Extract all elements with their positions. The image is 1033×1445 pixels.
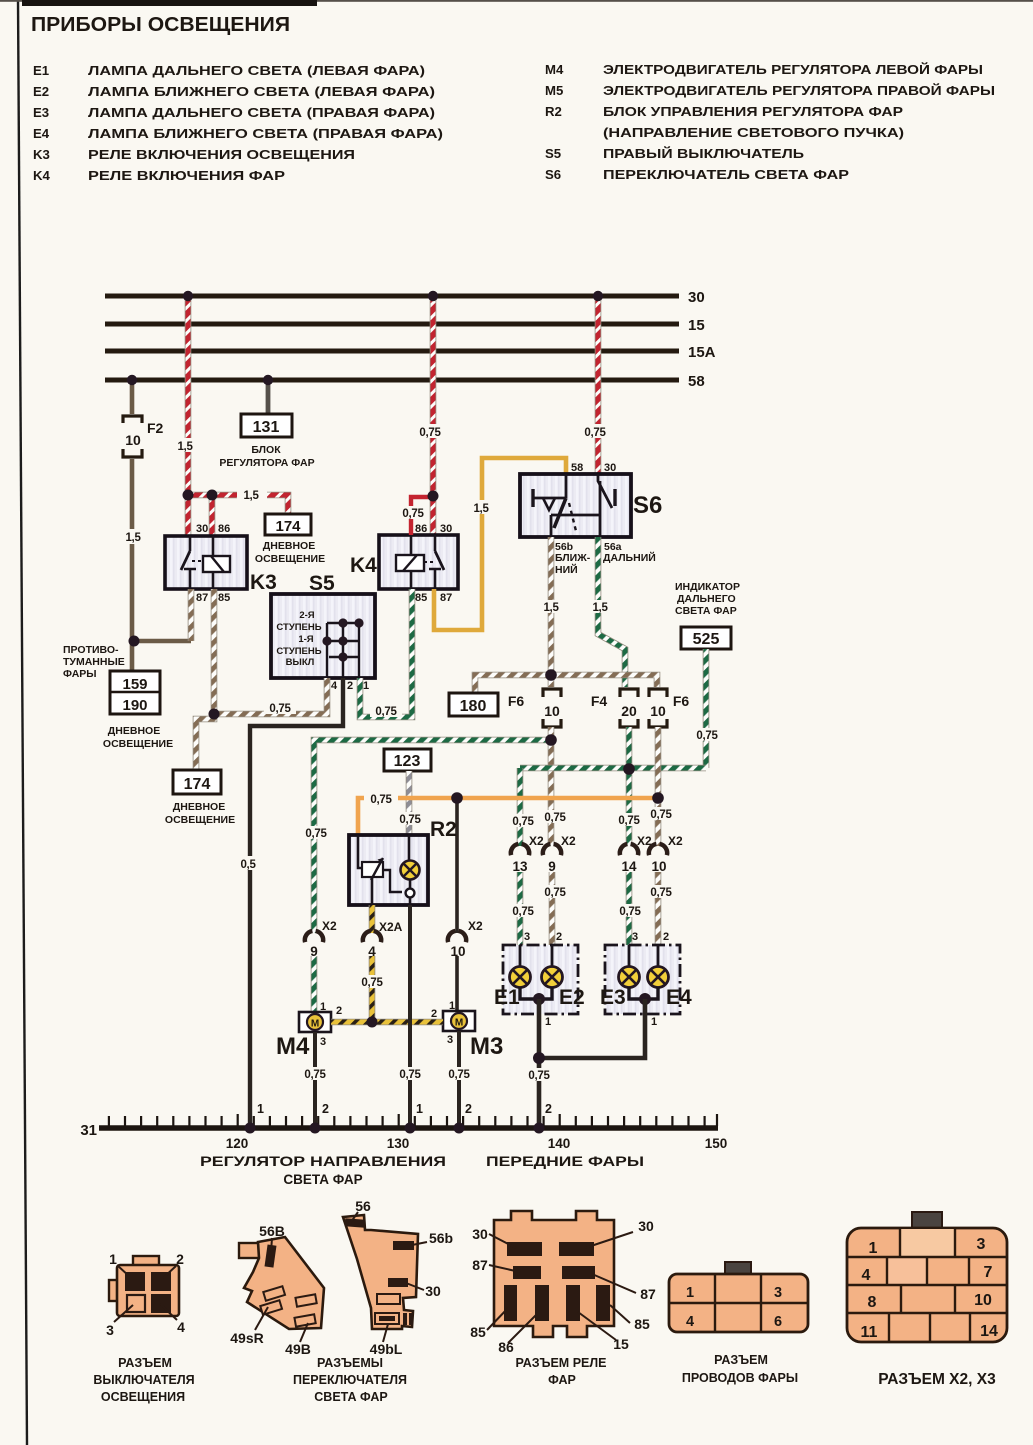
ground bus 31 (80, 1122, 718, 1139)
svg-text:РЕГУЛЯТОРА ФАР: РЕГУЛЯТОРА ФАР (219, 457, 314, 469)
wire gray bus58 to box 131 (266, 380, 271, 414)
svg-text:ТУМАННЫЕ: ТУМАННЫЕ (63, 656, 125, 668)
svg-text:0,75: 0,75 (618, 815, 640, 827)
svg-text:0,75: 0,75 (370, 794, 392, 806)
svg-text:1: 1 (109, 1251, 117, 1267)
svg-text:0,75: 0,75 (375, 706, 397, 718)
wire gray/white node to lamp connector 9 (539, 740, 571, 846)
light switch connector figure (93, 1251, 194, 1404)
wire black M3 pin3 to ground bus (443, 1031, 475, 1128)
wire gray/white orange node to lamp connector 10 (645, 798, 677, 846)
wire black headlamp ground link (523, 999, 645, 1128)
svg-text:3: 3 (320, 1036, 326, 1048)
box 525 high-beam indicator (681, 627, 731, 649)
wire yellow/black link M4 pin2 to M3 pin2 (331, 1019, 443, 1026)
svg-text:87: 87 (640, 1286, 656, 1302)
wire yellow/black connector 4 to motor link (356, 956, 388, 1022)
svg-text:1: 1 (416, 1102, 423, 1116)
bus 15A (105, 344, 716, 361)
box 180 (449, 693, 498, 716)
fuse F6 right 10A (649, 689, 689, 727)
top black header bar (0, 0, 1033, 2)
svg-text:0,75: 0,75 (512, 906, 534, 918)
svg-text:X2: X2 (529, 834, 544, 848)
connector X2 pin9 low beam left (543, 834, 576, 874)
svg-text:58: 58 (571, 462, 583, 474)
junction X2A link (367, 1017, 378, 1028)
switch S5 two-stage (271, 572, 375, 692)
svg-text:0,75: 0,75 (304, 1069, 326, 1081)
right headlamp housing box (605, 945, 680, 1014)
junction bus30/S6 (593, 291, 603, 301)
svg-text:0,75: 0,75 (696, 730, 718, 742)
junction E3/E4 common (639, 993, 651, 1005)
wire brown bus58 to fuse F2 (130, 380, 135, 414)
svg-text:РЕЛЕ ВКЛЮЧЕНИЯ ОСВЕЩЕНИЯ: РЕЛЕ ВКЛЮЧЕНИЯ ОСВЕЩЕНИЯ (88, 147, 355, 162)
svg-text:180: 180 (460, 698, 487, 715)
svg-text:E4: E4 (33, 126, 50, 141)
svg-text:E1: E1 (494, 986, 520, 1009)
wire black lamp commons E3 E4 (629, 987, 658, 999)
svg-text:0,75: 0,75 (650, 887, 672, 899)
svg-text:0,75: 0,75 (402, 508, 424, 520)
svg-text:ДНЕВНОЕ: ДНЕВНОЕ (108, 725, 160, 737)
junction bus58/131 (263, 375, 273, 385)
svg-text:30: 30 (440, 523, 452, 535)
svg-text:E3: E3 (600, 986, 626, 1009)
svg-text:1: 1 (257, 1102, 264, 1116)
wire black orange node to M3 pin1 (455, 798, 459, 933)
svg-text:E3: E3 (33, 105, 49, 120)
wire orange supply rail F6right to R2 (358, 791, 658, 835)
wire green/white connector 9 to M4 pin1 (311, 956, 318, 1012)
wire green/white connector 13 to lamp E1 (507, 872, 539, 967)
switch S6 dimmer (520, 462, 662, 537)
svg-text:85: 85 (470, 1324, 486, 1340)
junction bus30/K3 (183, 291, 193, 301)
svg-text:M: M (455, 1018, 463, 1029)
wire red/white bus30 to K3 node (185, 296, 192, 495)
svg-text:1: 1 (651, 1016, 657, 1028)
lamp E3 high beam right (600, 945, 640, 1009)
svg-text:0,75: 0,75 (650, 809, 672, 821)
svg-text:ПРАВЫЙ ВЫКЛЮЧАТЕЛЬ: ПРАВЫЙ ВЫКЛЮЧАТЕЛЬ (603, 146, 805, 161)
relay K4 (350, 523, 458, 604)
connector X2A pin4 (363, 920, 403, 959)
svg-text:10: 10 (125, 432, 141, 448)
svg-text:ЛАМПА БЛИЖНЕГО СВЕТА (ПРАВАЯ Ф: ЛАМПА БЛИЖНЕГО СВЕТА (ПРАВАЯ ФАРА) (88, 126, 443, 141)
svg-text:ИНДИКАТОР: ИНДИКАТОР (675, 581, 740, 593)
svg-text:F6: F6 (508, 693, 525, 709)
svg-text:РЕЛЕ ВКЛЮЧЕНИЯ ФАР: РЕЛЕ ВКЛЮЧЕНИЯ ФАР (88, 168, 285, 183)
svg-text:РЕГУЛЯТОР НАПРАВЛЕНИЯ: РЕГУЛЯТОР НАПРАВЛЕНИЯ (200, 1154, 446, 1169)
ground bus junctions (245, 1123, 256, 1134)
svg-text:M3: M3 (470, 1033, 503, 1060)
svg-text:85: 85 (218, 592, 230, 604)
wire gray/white S6 56b down to fuse F6 left (538, 537, 566, 687)
connector X2 pin9 (left headlamp motor) (305, 919, 337, 959)
svg-text:159: 159 (122, 676, 147, 693)
svg-text:СВЕТА ФАР: СВЕТА ФАР (675, 605, 737, 617)
svg-text:15: 15 (613, 1336, 629, 1352)
lamp E2 low beam left (542, 945, 585, 1009)
svg-text:СВЕТА ФАР: СВЕТА ФАР (314, 1390, 387, 1404)
wire gray/white F6 right output down to orange node (655, 727, 662, 798)
svg-text:123: 123 (394, 753, 421, 770)
wire black lamp commons E1 E2 (520, 987, 552, 999)
wire gray/white connector 10 to lamp E4 (645, 872, 677, 967)
ground bus scale ticks (109, 1114, 717, 1126)
wire yellow/black R2 to connector X2A pin4 (369, 905, 376, 933)
svg-text:K3: K3 (33, 147, 50, 162)
label 0,75 on red wire to S6 (577, 424, 613, 439)
svg-text:ЛАМПА ДАЛЬНЕГО СВЕТА (ПРАВАЯ Ф: ЛАМПА ДАЛЬНЕГО СВЕТА (ПРАВАЯ ФАРА) (88, 105, 435, 120)
svg-text:8: 8 (868, 1294, 877, 1311)
svg-text:ПРИБОРЫ ОСВЕЩЕНИЯ: ПРИБОРЫ ОСВЕЩЕНИЯ (31, 13, 290, 36)
wire brown/white junction to S5 pin4 (214, 678, 327, 715)
svg-text:X2: X2 (561, 834, 576, 848)
svg-text:M: M (311, 1019, 319, 1030)
svg-text:R2: R2 (430, 818, 457, 841)
ground bus wire numbers (257, 1102, 552, 1116)
wire brown/white below fuse F6 left to node (548, 727, 555, 740)
svg-text:130: 130 (387, 1136, 410, 1151)
svg-text:0,5: 0,5 (240, 859, 256, 871)
svg-text:131: 131 (253, 419, 280, 436)
svg-text:ЛАМПА ДАЛЬНЕГО СВЕТА (ЛЕВАЯ ФА: ЛАМПА ДАЛЬНЕГО СВЕТА (ЛЕВАЯ ФАРА) (88, 63, 425, 78)
svg-text:ЭЛЕКТРОДВИГАТЕЛЬ РЕГУЛЯТОРА ЛЕ: ЭЛЕКТРОДВИГАТЕЛЬ РЕГУЛЯТОРА ЛЕВОЙ ФАРЫ (603, 62, 983, 77)
connector X2 pin10 (right motor feed) (448, 919, 483, 959)
relay K3 (165, 523, 277, 604)
junction 56b rail (546, 670, 557, 681)
text indicator high beam (675, 581, 740, 617)
svg-text:140: 140 (548, 1136, 571, 1151)
svg-text:2: 2 (465, 1102, 472, 1116)
svg-text:РАЗЪЕМ X2, X3: РАЗЪЕМ X2, X3 (878, 1371, 996, 1388)
svg-text:86: 86 (498, 1339, 514, 1355)
svg-text:1-Я: 1-Я (298, 634, 313, 645)
box 123 (384, 749, 431, 771)
svg-text:1,5: 1,5 (592, 602, 608, 614)
wire green/white F4 output high-beam rail (626, 727, 633, 769)
svg-text:10: 10 (544, 703, 560, 719)
svg-text:0,75: 0,75 (528, 1070, 550, 1082)
box 131 head light regulator unit (219, 414, 314, 469)
connector X2 pin10 low beam right (649, 834, 683, 874)
svg-text:K4: K4 (350, 554, 377, 577)
svg-text:1: 1 (449, 1000, 455, 1012)
box 174 daytime running light (lower) (165, 770, 235, 826)
svg-text:14: 14 (621, 859, 637, 874)
junction bus30/K4 (428, 291, 438, 301)
junction below fuse F6 left (546, 735, 557, 746)
svg-text:87: 87 (472, 1257, 488, 1273)
svg-text:0,75: 0,75 (544, 812, 566, 824)
svg-text:174: 174 (275, 518, 301, 535)
wire brown/white K3 pin85 down to junction (211, 589, 218, 714)
svg-text:F4: F4 (591, 693, 608, 709)
text fog lamps (63, 644, 125, 680)
svg-text:S5: S5 (309, 572, 335, 595)
svg-text:2: 2 (347, 680, 353, 692)
svg-text:30: 30 (196, 523, 208, 535)
svg-text:6: 6 (774, 1314, 782, 1330)
svg-text:13: 13 (512, 859, 528, 874)
svg-text:150: 150 (705, 1136, 728, 1151)
svg-text:1: 1 (363, 680, 369, 692)
svg-text:X2A: X2A (379, 920, 403, 934)
wire red/white bus30 to S6 pin30 (595, 296, 602, 474)
svg-text:87: 87 (440, 592, 452, 604)
wire brown horizontal fog node to K3 pin87 (134, 639, 191, 644)
wire green/white rail to connector 14 (613, 769, 645, 846)
svg-text:X2: X2 (468, 919, 483, 933)
svg-text:86: 86 (218, 523, 230, 535)
svg-text:85: 85 (415, 592, 427, 604)
svg-text:2: 2 (556, 931, 562, 943)
svg-text:3: 3 (524, 931, 530, 943)
svg-text:S6: S6 (633, 492, 662, 519)
svg-text:0,75: 0,75 (544, 887, 566, 899)
svg-text:4: 4 (686, 1314, 694, 1330)
wire brown F2 down to fog-lamp node (117, 459, 150, 671)
label 0,75 on red wire to K4 (412, 424, 448, 439)
S6 terminal texts 56b near / 56a far (555, 541, 656, 576)
svg-text:1: 1 (545, 1016, 551, 1028)
legend right column (545, 62, 995, 182)
svg-text:0,75: 0,75 (448, 1069, 470, 1081)
fuse F4 20A (591, 689, 638, 727)
svg-text:87: 87 (196, 592, 208, 604)
left headlamp housing box (503, 945, 578, 1014)
svg-text:3: 3 (977, 1236, 986, 1253)
svg-text:2: 2 (431, 1008, 437, 1020)
wire black R2 ground to bus (394, 905, 426, 1128)
wire gray/white box123 to R2 (394, 771, 426, 835)
svg-text:X2: X2 (668, 834, 683, 848)
wire green/white box525 down to high-beam rail (690, 649, 724, 768)
svg-text:E4: E4 (666, 986, 692, 1009)
svg-text:F6: F6 (673, 693, 690, 709)
svg-text:F2: F2 (147, 420, 164, 436)
svg-text:K4: K4 (33, 168, 51, 183)
svg-text:M5: M5 (545, 83, 563, 98)
svg-text:ОСВЕЩЕНИЕ: ОСВЕЩЕНИЕ (165, 814, 235, 826)
junction bus58/F2 (127, 375, 137, 385)
svg-text:2: 2 (176, 1251, 184, 1267)
svg-text:ПЕРЕДНИЕ ФАРЫ: ПЕРЕДНИЕ ФАРЫ (486, 1154, 644, 1169)
junction fog node (129, 636, 140, 647)
connector X2 X3 figure (847, 1212, 1007, 1388)
svg-text:56: 56 (355, 1198, 371, 1214)
junction restamp orange nodes (451, 792, 463, 804)
wire red/white node row to daytime box 174 (188, 488, 288, 514)
junction K4 node (428, 491, 439, 502)
box 174 daytime running light (upper) (255, 514, 325, 565)
headlamp relay connector figure (470, 1211, 656, 1387)
connector X2 pin14 high beam right (620, 834, 652, 874)
svg-text:K3: K3 (250, 571, 277, 594)
svg-text:30: 30 (638, 1218, 654, 1234)
svg-text:1,5: 1,5 (125, 532, 141, 544)
headlamp wiring connector figure (669, 1262, 808, 1385)
caption headlight direction regulator (200, 1154, 446, 1187)
svg-text:31: 31 (80, 1122, 97, 1139)
svg-text:1,5: 1,5 (543, 602, 559, 614)
svg-text:СВЕТА ФАР: СВЕТА ФАР (283, 1172, 362, 1187)
wire red/white down to K3 pin86 (209, 495, 216, 536)
svg-text:0,75: 0,75 (512, 816, 534, 828)
box 159/190 fog relay (103, 671, 173, 750)
svg-text:E2: E2 (33, 84, 49, 99)
svg-text:0,75: 0,75 (419, 427, 441, 439)
svg-text:СТУПЕНЬ: СТУПЕНЬ (276, 622, 321, 633)
svg-text:РАЗЪЕМ: РАЗЪЕМ (714, 1353, 768, 1367)
svg-text:190: 190 (122, 697, 147, 714)
bus 58 (105, 373, 705, 390)
svg-text:1: 1 (869, 1240, 878, 1257)
bus 30 (105, 289, 705, 306)
svg-text:30: 30 (688, 289, 705, 306)
fuse F6 left 10A (508, 689, 561, 727)
lamp pin labels (524, 931, 669, 943)
junction restamp low-beam node (545, 669, 557, 681)
svg-text:0,75: 0,75 (361, 977, 383, 989)
svg-text:3: 3 (632, 931, 638, 943)
wire brown/white junction down to box 174 lower (196, 714, 214, 770)
svg-text:1,5: 1,5 (473, 503, 489, 515)
svg-text:56B: 56B (259, 1223, 285, 1239)
svg-text:56b: 56b (429, 1230, 453, 1246)
junction K3 pin86 node (207, 490, 218, 501)
svg-text:ВЫКЛ: ВЫКЛ (286, 657, 315, 668)
wire green/white S5 pin1 to K4 pin85 (360, 589, 412, 718)
svg-text:525: 525 (693, 631, 720, 648)
svg-text:0,75: 0,75 (399, 1069, 421, 1081)
control unit R2 (349, 818, 457, 905)
headlight switch connector 49bL (293, 1198, 453, 1404)
wire brown/white low-beam rail to box180 and F6 right (475, 675, 657, 693)
wire brown/white K3 pin87 down (188, 589, 195, 641)
svg-text:ФАР: ФАР (548, 1373, 576, 1387)
svg-text:4: 4 (331, 680, 338, 692)
svg-text:M4: M4 (276, 1033, 310, 1060)
svg-text:49sR: 49sR (230, 1330, 263, 1346)
svg-text:1: 1 (320, 1001, 326, 1013)
svg-text:10: 10 (650, 703, 666, 719)
svg-text:S6: S6 (545, 167, 561, 182)
svg-text:86: 86 (415, 523, 427, 535)
svg-text:ОСВЕЩЕНИЯ: ОСВЕЩЕНИЯ (101, 1390, 185, 1404)
wire yellow K4 pin87 to S6 pin58 (434, 458, 566, 630)
page left border line (18, 0, 27, 1445)
svg-text:РАЗЪЕМЫ: РАЗЪЕМЫ (317, 1356, 383, 1370)
svg-text:174: 174 (184, 776, 211, 793)
wire green/white S6 56a down to fuse F4 (587, 537, 625, 687)
svg-text:E2: E2 (559, 986, 585, 1009)
svg-text:ПРОТИВО-: ПРОТИВО- (63, 644, 119, 656)
svg-text:120: 120 (226, 1136, 249, 1151)
svg-text:2: 2 (322, 1102, 329, 1116)
headlight switch connector 49sR/49B (230, 1223, 324, 1357)
svg-text:БЛИЖ-: БЛИЖ- (555, 552, 591, 564)
svg-text:3: 3 (774, 1285, 782, 1301)
svg-text:M4: M4 (545, 62, 564, 77)
svg-text:0,75: 0,75 (305, 828, 327, 840)
wire red solid K4 node to pin86 (398, 497, 433, 535)
svg-text:S5: S5 (545, 146, 561, 161)
motor M4 left headlamp leveling (276, 1001, 342, 1060)
wire green/white connector 14 to lamp E3 (614, 872, 646, 967)
svg-text:2: 2 (545, 1102, 552, 1116)
svg-text:85: 85 (634, 1316, 650, 1332)
svg-text:0,75: 0,75 (269, 703, 291, 715)
junction K3-85/S5 (209, 709, 220, 720)
wire green/white high-beam rail horizontal (520, 765, 706, 772)
svg-text:3: 3 (106, 1322, 114, 1338)
svg-text:7: 7 (984, 1264, 993, 1281)
svg-text:30: 30 (604, 462, 616, 474)
svg-text:РАЗЪЕМ: РАЗЪЕМ (118, 1356, 172, 1370)
svg-text:ЭЛЕКТРОДВИГАТЕЛЬ РЕГУЛЯТОРА ПР: ЭЛЕКТРОДВИГАТЕЛЬ РЕГУЛЯТОРА ПРАВОЙ ФАРЫ (603, 83, 995, 98)
svg-text:R2: R2 (545, 104, 562, 119)
svg-text:ВЫКЛЮЧАТЕЛЯ: ВЫКЛЮЧАТЕЛЯ (93, 1373, 194, 1387)
svg-text:БЛОК УПРАВЛЕНИЯ РЕГУЛЯТОРА ФАР: БЛОК УПРАВЛЕНИЯ РЕГУЛЯТОРА ФАР (603, 104, 903, 119)
svg-text:РАЗЪЕМ РЕЛЕ: РАЗЪЕМ РЕЛЕ (516, 1356, 607, 1370)
junction orange/F6right (653, 793, 664, 804)
wire green/white low-beam node to M4 branch (299, 740, 551, 933)
svg-text:ПЕРЕКЛЮЧАТЕЛЯ: ПЕРЕКЛЮЧАТЕЛЯ (293, 1373, 407, 1387)
svg-text:ДНЕВНОЕ: ДНЕВНОЕ (173, 801, 225, 813)
svg-text:1: 1 (686, 1285, 694, 1301)
svg-text:ОСВЕЩЕНИЕ: ОСВЕЩЕНИЕ (103, 738, 173, 750)
label 1,5 on red wire to K3 (170, 438, 200, 453)
svg-text:10: 10 (651, 859, 666, 874)
wire black S5 pin2 to ground bus (234, 678, 343, 1128)
svg-text:СТУПЕНЬ: СТУПЕНЬ (276, 646, 321, 657)
svg-text:9: 9 (548, 859, 556, 874)
svg-text:30: 30 (425, 1283, 441, 1299)
svg-text:ЛАМПА БЛИЖНЕГО СВЕТА (ЛЕВАЯ ФА: ЛАМПА БЛИЖНЕГО СВЕТА (ЛЕВАЯ ФАРА) (88, 84, 435, 99)
svg-text:2: 2 (663, 931, 669, 943)
wire black connector 10 to M3 pin1 (455, 956, 459, 1011)
svg-text:НИЙ: НИЙ (555, 563, 578, 576)
svg-text:1,5: 1,5 (177, 441, 193, 453)
lamp E1 high beam left (494, 945, 531, 1009)
svg-text:ДАЛЬНИЙ: ДАЛЬНИЙ (603, 551, 656, 564)
svg-text:БЛОК: БЛОК (251, 444, 281, 456)
lamp E4 low beam right (648, 945, 693, 1009)
svg-text:ДНЕВНОЕ: ДНЕВНОЕ (263, 540, 315, 552)
junction E1/E2 common (533, 993, 545, 1005)
svg-text:ФАРЫ: ФАРЫ (63, 668, 97, 680)
svg-text:0,75: 0,75 (619, 906, 641, 918)
svg-text:ПЕРЕКЛЮЧАТЕЛЬ СВЕТА ФАР: ПЕРЕКЛЮЧАТЕЛЬ СВЕТА ФАР (603, 167, 849, 182)
svg-text:E1: E1 (33, 63, 49, 78)
svg-text:ДАЛЬНЕГО: ДАЛЬНЕГО (677, 593, 736, 605)
svg-text:15: 15 (688, 317, 705, 334)
svg-text:2: 2 (336, 1005, 342, 1017)
svg-text:ПРОВОДОВ ФАРЫ: ПРОВОДОВ ФАРЫ (682, 1371, 798, 1385)
svg-text:(НАПРАВЛЕНИЕ СВЕТОВОГО ПУЧКА): (НАПРАВЛЕНИЕ СВЕТОВОГО ПУЧКА) (603, 125, 904, 140)
wire gray/white connector 9 to lamp E2 (539, 872, 571, 967)
fuse F2 value 10 (123, 416, 164, 457)
svg-text:20: 20 (621, 703, 637, 719)
svg-text:4: 4 (862, 1267, 871, 1284)
lamp common pin 1 labels (545, 1016, 657, 1028)
svg-text:49bL: 49bL (370, 1341, 403, 1357)
svg-text:ОСВЕЩЕНИЕ: ОСВЕЩЕНИЕ (255, 553, 325, 565)
